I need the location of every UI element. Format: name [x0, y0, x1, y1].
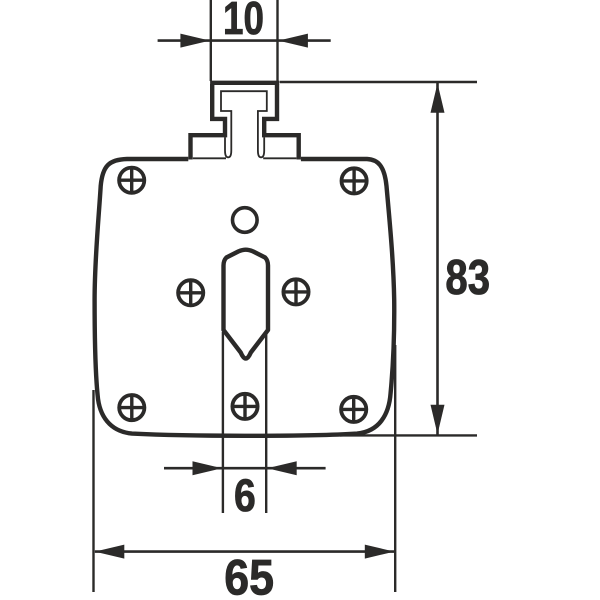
dim 65 arrow right [365, 545, 395, 559]
screw bottom-left [118, 394, 146, 422]
dim 83 extension line bottom [340, 434, 477, 436]
screw top-right [340, 167, 368, 195]
screw top-left [118, 166, 146, 194]
dim 6 arrow left [193, 461, 223, 475]
mounting tab outer contour left [191, 84, 226, 160]
plate body outline [95, 159, 395, 436]
dim 65 extension line right [394, 345, 396, 592]
screw mid-right [282, 278, 310, 306]
tab bend line left [193, 157, 226, 159]
tab bend line right [263, 157, 296, 159]
mounting tab top edge [210, 81, 279, 85]
dim 10 arrow right [278, 34, 308, 48]
dim 10 line [158, 39, 331, 42]
dim 83 arrow top [431, 83, 445, 113]
dim 83 line [436, 83, 439, 435]
dim 6 line [164, 467, 326, 470]
dim 6 extension line right [265, 332, 267, 513]
dim 83 arrow bottom [431, 405, 445, 435]
screw mid-left [177, 279, 205, 307]
svg-text:6: 6 [234, 470, 256, 520]
mounting tab outer contour right [264, 84, 299, 160]
key slot outline [224, 250, 269, 359]
screw bottom-center [231, 392, 259, 420]
svg-text:83: 83 [445, 250, 490, 305]
svg-text:65: 65 [224, 550, 274, 600]
dim 83 extension line top [280, 81, 478, 83]
dim 6 arrow right [267, 461, 297, 475]
dim 65 arrow left [95, 545, 125, 559]
dim 10 extension line right [276, 0, 278, 81]
dim 65 extension line left [92, 390, 94, 592]
svg-text:10: 10 [223, 0, 264, 44]
tab inner thin contour with folded tubes [221, 91, 267, 157]
small circle hole [233, 208, 258, 233]
screw bottom-right [340, 395, 368, 423]
dim 10 extension line left [210, 0, 212, 81]
dim 65 line [95, 550, 395, 553]
dim 6 extension line left [222, 332, 224, 513]
dim 10 arrow left [180, 34, 210, 48]
